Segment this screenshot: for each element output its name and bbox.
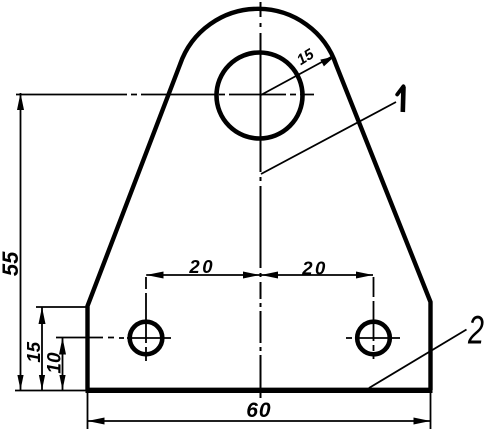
label 1 — [400, 87, 405, 113]
dim 20 center-left arrow — [243, 272, 260, 279]
leader line 1 — [261, 102, 396, 174]
dim 60 right arrow — [414, 418, 431, 425]
dim 60 right extension — [430, 393, 432, 429]
horizontal centerline of big hole + 55 top extension — [16, 94, 314, 96]
plate outline — [88, 9, 431, 390]
dim 60 left extension — [87, 393, 89, 429]
left hole vertical centerline / 20-dim extension — [145, 277, 147, 361]
dim 20 right arrow — [356, 272, 373, 279]
dim 15 top extension — [36, 306, 89, 308]
dimension 15 line — [41, 307, 43, 390]
dim 10 arrow bottom — [59, 375, 65, 390]
vertical centerline (plate axis) — [260, 2, 262, 398]
svg-text:55: 55 — [0, 251, 23, 276]
dim 20 center-right arrow — [261, 272, 278, 279]
dimension 10 line — [62, 338, 64, 391]
dim 10 arrow top — [59, 338, 66, 355]
dim 55 arrow bottom — [17, 375, 23, 390]
radius 15 arrow — [320, 57, 334, 67]
small hole right — [357, 322, 390, 355]
dimension 60 line — [88, 420, 431, 422]
dim 15 arrow bottom — [39, 375, 45, 390]
big hole — [217, 53, 303, 139]
dim 20 left arrow — [146, 272, 163, 279]
svg-text:10: 10 — [45, 352, 66, 374]
plate bottom edge (thick) — [86, 388, 433, 393]
svg-text:15: 15 — [23, 341, 44, 362]
dim 10 top extension — [56, 337, 114, 339]
radius 15 dimension line — [260, 57, 332, 96]
dimension 55 line — [20, 93, 22, 390]
dim 55 arrow top — [17, 93, 24, 110]
small hole left — [130, 322, 163, 355]
svg-text:60: 60 — [246, 399, 271, 422]
right hole horizontal centerline — [346, 337, 400, 339]
leader line 2 — [369, 330, 467, 389]
right hole vertical centerline / 20-dim extension — [373, 277, 375, 359]
left hole horizontal centerline — [119, 337, 171, 339]
bottom-left extension line (shared base of 55/15/10) — [15, 390, 87, 392]
dimension 20-20 line — [146, 274, 373, 276]
dim 15 arrow top — [39, 307, 46, 324]
dim 60 left arrow — [88, 418, 105, 425]
svg-text:2: 2 — [467, 308, 484, 353]
svg-text:20: 20 — [188, 256, 215, 277]
svg-text:20: 20 — [301, 258, 328, 279]
